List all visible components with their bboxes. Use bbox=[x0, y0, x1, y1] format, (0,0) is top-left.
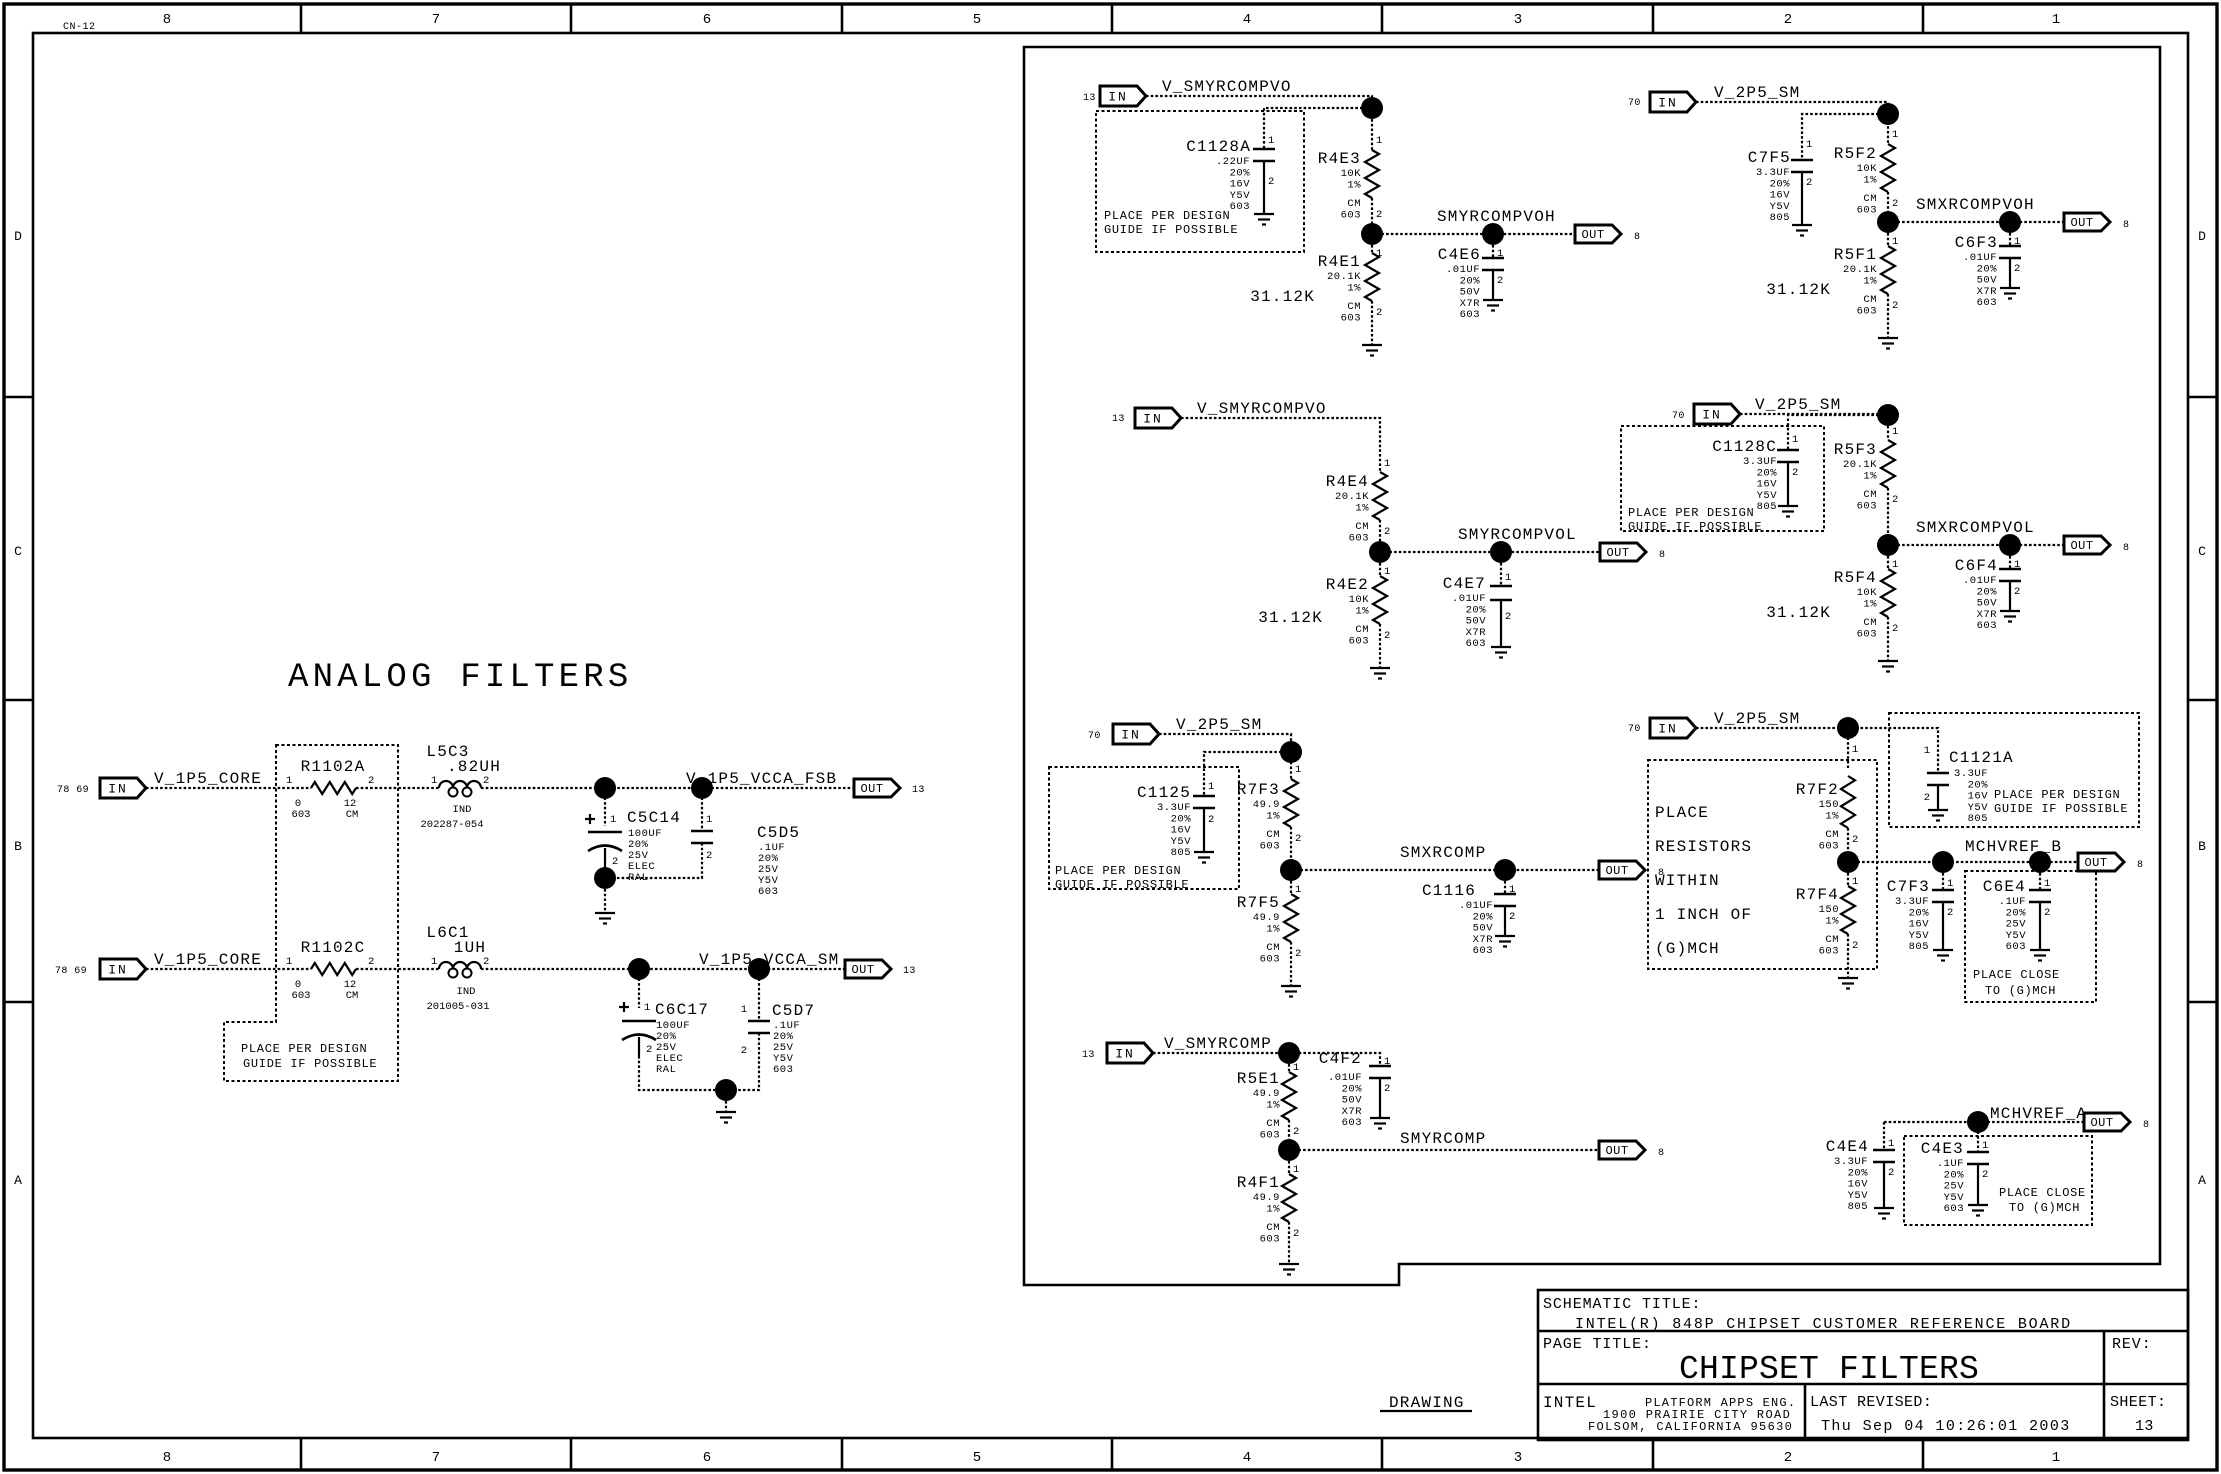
svg-text:A: A bbox=[2198, 1173, 2206, 1188]
svg-text:49.9: 49.9 bbox=[1253, 799, 1280, 811]
svg-text:20%: 20% bbox=[1171, 813, 1192, 825]
svg-text:.01UF: .01UF bbox=[1963, 252, 1997, 264]
svg-text:SCHEMATIC TITLE:: SCHEMATIC TITLE: bbox=[1543, 1296, 1701, 1313]
junction SMYRCOMPVOL (G2) bbox=[1369, 541, 1391, 563]
dashed placement box R1102 bbox=[224, 745, 398, 1081]
svg-text:C: C bbox=[2198, 544, 2206, 559]
inductor L5C3 bbox=[439, 781, 481, 788]
svg-text:IN: IN bbox=[1115, 1047, 1135, 1062]
svg-text:R4E4: R4E4 bbox=[1326, 473, 1369, 491]
svg-text:20%: 20% bbox=[1770, 178, 1791, 190]
svg-text:CHIPSET FILTERS: CHIPSET FILTERS bbox=[1679, 1351, 1979, 1388]
ground below R4E1 bbox=[1362, 344, 1382, 346]
svg-text:D: D bbox=[14, 229, 22, 244]
svg-text:CM: CM bbox=[346, 809, 359, 821]
svg-text:1: 1 bbox=[1888, 1138, 1894, 1150]
svg-text:3.3UF: 3.3UF bbox=[1157, 802, 1191, 814]
ground below R4E2 bbox=[1370, 667, 1390, 669]
svg-text:.01UF: .01UF bbox=[1446, 264, 1480, 276]
svg-text:8: 8 bbox=[1659, 550, 1665, 561]
placement box PLACE RESISTORS bbox=[1648, 760, 1877, 969]
svg-text:2: 2 bbox=[1806, 177, 1812, 189]
dashed placement box C1128C bbox=[1621, 426, 1824, 531]
dashed placement box C1128A bbox=[1096, 111, 1304, 252]
svg-text:C4E3: C4E3 bbox=[1921, 1140, 1964, 1158]
wire junction to C1128A bbox=[1264, 108, 1372, 149]
svg-text:150: 150 bbox=[1819, 904, 1839, 916]
svg-text:C5D5: C5D5 bbox=[757, 824, 800, 842]
resistor R4F1 bbox=[1288, 1161, 1290, 1174]
svg-text:603: 603 bbox=[1857, 305, 1877, 317]
svg-text:25V: 25V bbox=[1944, 1181, 1965, 1193]
svg-text:C4F2: C4F2 bbox=[1319, 1050, 1362, 1068]
svg-text:20.1K: 20.1K bbox=[1327, 271, 1361, 283]
resistor R4E2 bbox=[1379, 563, 1381, 576]
junction V_SMYRCOMPVO (G1) bbox=[1361, 97, 1383, 119]
OUT port SMYRCOMPVOH bbox=[1575, 225, 1621, 243]
svg-text:202287-054: 202287-054 bbox=[420, 819, 483, 831]
svg-text:C1121A: C1121A bbox=[1949, 749, 2014, 767]
svg-text:V_SMYRCOMPVO: V_SMYRCOMPVO bbox=[1197, 400, 1327, 418]
svg-text:C4E4: C4E4 bbox=[1826, 1138, 1869, 1156]
svg-text:.01UF: .01UF bbox=[1452, 593, 1486, 605]
svg-text:3.3UF: 3.3UF bbox=[1834, 1156, 1868, 1168]
svg-text:CM: CM bbox=[1863, 489, 1877, 501]
svg-text:1%: 1% bbox=[1266, 1099, 1280, 1111]
junction V_SMYRCOMP (G4) bbox=[1278, 1042, 1300, 1064]
junction SMYRCOMPVOH (G1) bbox=[1361, 223, 1383, 245]
junction below C6C17/C5D7 bbox=[715, 1079, 737, 1101]
svg-text:20%: 20% bbox=[1977, 263, 1998, 275]
svg-text:2: 2 bbox=[1293, 1228, 1299, 1240]
capacitor C6F4 bbox=[2009, 556, 2011, 569]
svg-text:4: 4 bbox=[1243, 12, 1251, 28]
svg-text:C5C14: C5C14 bbox=[627, 809, 681, 827]
svg-text:MCHVREF_B: MCHVREF_B bbox=[1965, 838, 2062, 856]
svg-text:X7R: X7R bbox=[1977, 609, 1998, 621]
svg-text:13: 13 bbox=[1083, 93, 1096, 104]
svg-text:IN: IN bbox=[1658, 96, 1678, 111]
svg-text:.1UF: .1UF bbox=[1999, 896, 2026, 908]
svg-text:8: 8 bbox=[163, 1450, 171, 1466]
svg-text:Y5V: Y5V bbox=[2006, 930, 2027, 942]
svg-text:V_2P5_SM: V_2P5_SM bbox=[1714, 84, 1800, 102]
svg-text:R5F1: R5F1 bbox=[1834, 246, 1877, 264]
svg-text:PLACE PER DESIGN: PLACE PER DESIGN bbox=[1104, 209, 1230, 223]
svg-text:V_SMYRCOMP: V_SMYRCOMP bbox=[1164, 1035, 1272, 1053]
OUT port SMYRCOMPVOL bbox=[1600, 543, 1646, 561]
svg-text:R5F3: R5F3 bbox=[1834, 441, 1877, 459]
ground below R5F4 bbox=[1878, 660, 1898, 662]
svg-text:V_SMYRCOMPVO: V_SMYRCOMPVO bbox=[1162, 78, 1292, 96]
svg-text:2: 2 bbox=[1947, 907, 1953, 919]
svg-text:SMXRCOMPVOL: SMXRCOMPVOL bbox=[1916, 519, 2035, 537]
svg-text:1: 1 bbox=[1295, 884, 1301, 896]
svg-text:IND: IND bbox=[453, 804, 472, 816]
svg-text:IN: IN bbox=[108, 782, 128, 797]
svg-text:2: 2 bbox=[1295, 833, 1301, 845]
svg-text:31.12K: 31.12K bbox=[1766, 281, 1831, 299]
wire IN to junction (G5) bbox=[1696, 102, 1888, 144]
svg-text:1%: 1% bbox=[1863, 174, 1877, 186]
svg-text:2: 2 bbox=[1982, 1169, 1988, 1181]
junction at C7F3 tap bbox=[1932, 851, 1954, 873]
svg-text:OUT: OUT bbox=[2084, 856, 2107, 870]
svg-text:603: 603 bbox=[1342, 1117, 1362, 1129]
svg-text:2: 2 bbox=[368, 956, 374, 968]
svg-text:2: 2 bbox=[1509, 911, 1515, 923]
wire IN to R5F3 (G6) bbox=[1740, 414, 1888, 440]
svg-text:FOLSOM, CALIFORNIA 95630: FOLSOM, CALIFORNIA 95630 bbox=[1588, 1420, 1793, 1434]
svg-text:OUT: OUT bbox=[1605, 1144, 1628, 1158]
capacitor C6F3 bbox=[2009, 233, 2011, 246]
svg-text:IN: IN bbox=[108, 963, 128, 978]
svg-text:C1116: C1116 bbox=[1422, 882, 1476, 900]
svg-text:1: 1 bbox=[1852, 876, 1858, 888]
svg-text:1%: 1% bbox=[1355, 605, 1369, 617]
svg-text:603: 603 bbox=[1341, 312, 1361, 324]
svg-text:OUT: OUT bbox=[2070, 539, 2093, 553]
svg-text:.22UF: .22UF bbox=[1216, 156, 1250, 168]
ground below C6F3 bbox=[2000, 287, 2020, 289]
ground below R5F1 bbox=[1878, 337, 1898, 339]
wire R1102A to L5C3 bbox=[356, 787, 439, 789]
svg-text:603: 603 bbox=[1341, 209, 1361, 221]
ground below C6E4 bbox=[2030, 949, 2050, 951]
title block outline bbox=[1538, 1290, 2188, 1440]
svg-text:7: 7 bbox=[432, 12, 440, 28]
svg-text:C1128C: C1128C bbox=[1712, 438, 1777, 456]
wire C5C14 to ground junction bbox=[604, 867, 606, 878]
svg-text:603: 603 bbox=[1260, 840, 1280, 852]
resistor R5E1 bbox=[1288, 1064, 1290, 1072]
wire R5F4 to ground bbox=[1887, 617, 1889, 661]
filter block outline bbox=[1024, 47, 2160, 1285]
svg-text:REV:: REV: bbox=[2112, 1336, 2152, 1353]
wire C5D5 to junction bbox=[616, 843, 702, 878]
svg-text:1: 1 bbox=[1982, 1140, 1988, 1152]
ground below C7F3 bbox=[1933, 949, 1953, 951]
ground below C1128C bbox=[1778, 505, 1798, 507]
junction at C4E6 tap bbox=[1482, 223, 1504, 245]
svg-text:6: 6 bbox=[703, 12, 711, 28]
svg-text:603: 603 bbox=[1819, 945, 1839, 957]
junction SMXRCOMPVOL (G6) bbox=[1877, 534, 1899, 556]
svg-text:PLACE PER DESIGN: PLACE PER DESIGN bbox=[1628, 506, 1754, 520]
svg-text:CM: CM bbox=[1355, 624, 1369, 636]
svg-text:V_2P5_SM: V_2P5_SM bbox=[1714, 710, 1800, 728]
svg-text:2: 2 bbox=[1293, 1126, 1299, 1138]
wire junction to OUT (G1) bbox=[1372, 233, 1575, 235]
svg-text:20%: 20% bbox=[1909, 907, 1930, 919]
svg-text:2: 2 bbox=[1792, 467, 1798, 479]
svg-text:2: 2 bbox=[1376, 307, 1382, 319]
resistor R7F5 bbox=[1290, 881, 1292, 894]
svg-text:1: 1 bbox=[1293, 1062, 1299, 1074]
junction at C1116 tap bbox=[1494, 859, 1516, 881]
wire junction to C5C14 bbox=[604, 788, 606, 826]
svg-text:X7R: X7R bbox=[1466, 627, 1487, 639]
svg-text:20%: 20% bbox=[1473, 911, 1494, 923]
svg-text:16V: 16V bbox=[1171, 825, 1192, 837]
IN port V_1P5_CORE (row 2) bbox=[100, 959, 146, 979]
svg-text:603: 603 bbox=[1260, 1129, 1280, 1141]
svg-text:2: 2 bbox=[1497, 275, 1503, 287]
svg-text:1: 1 bbox=[706, 814, 712, 826]
svg-text:.01UF: .01UF bbox=[1328, 1072, 1362, 1084]
svg-text:603: 603 bbox=[1349, 635, 1369, 647]
dashed placement box C1121A bbox=[1889, 713, 2139, 827]
svg-text:2: 2 bbox=[1924, 792, 1930, 804]
svg-text:Y5V: Y5V bbox=[1757, 490, 1778, 502]
svg-text:X7R: X7R bbox=[1342, 1106, 1363, 1118]
svg-text:603: 603 bbox=[1260, 1233, 1280, 1245]
IN port V_SMYRCOMP (G4) bbox=[1107, 1043, 1153, 1063]
svg-text:2: 2 bbox=[2014, 586, 2020, 598]
svg-text:CM: CM bbox=[1863, 617, 1877, 629]
svg-text:31.12K: 31.12K bbox=[1250, 288, 1315, 306]
OUT port SMXRCOMP bbox=[1599, 861, 1645, 879]
svg-text:1UH: 1UH bbox=[454, 939, 486, 957]
title block divider 2 bbox=[1538, 1383, 2188, 1386]
svg-text:X7R: X7R bbox=[1977, 286, 1998, 298]
svg-text:603: 603 bbox=[1349, 532, 1369, 544]
svg-text:49.9: 49.9 bbox=[1253, 912, 1280, 924]
junction at C5D7 tap bbox=[748, 958, 770, 980]
svg-text:2: 2 bbox=[1376, 209, 1382, 221]
svg-text:1: 1 bbox=[741, 1004, 747, 1016]
wire junction to OUT (G3) bbox=[1291, 869, 1599, 871]
bottom border zone dividers bbox=[300, 1438, 303, 1470]
wire IN to R4E4 bbox=[1181, 418, 1380, 472]
svg-text:1: 1 bbox=[1792, 434, 1798, 446]
svg-text:2: 2 bbox=[1784, 1450, 1792, 1466]
svg-text:PLACE CLOSE: PLACE CLOSE bbox=[1973, 968, 2060, 982]
svg-text:10K: 10K bbox=[1857, 163, 1878, 175]
svg-text:603: 603 bbox=[292, 809, 311, 821]
wire junction to OUT (G4) bbox=[1289, 1149, 1599, 1151]
svg-text:603: 603 bbox=[1819, 840, 1839, 852]
svg-text:603: 603 bbox=[1460, 309, 1480, 321]
OUT port V_1P5_VCCA_SM bbox=[845, 960, 891, 978]
svg-text:GUIDE IF POSSIBLE: GUIDE IF POSSIBLE bbox=[1628, 520, 1762, 534]
wire L5C3 to OUT V_1P5_VCCA_FSB bbox=[481, 787, 854, 789]
svg-text:RAL: RAL bbox=[656, 1064, 676, 1076]
wire junction to OUT (G5) bbox=[1888, 221, 2064, 223]
svg-text:C1125: C1125 bbox=[1137, 784, 1191, 802]
svg-text:20%: 20% bbox=[1342, 1083, 1363, 1095]
title block divider REV bbox=[2103, 1331, 2106, 1440]
svg-text:R5F2: R5F2 bbox=[1834, 145, 1877, 163]
OUT port MCHVREF_B bbox=[2078, 853, 2124, 871]
svg-text:1: 1 bbox=[1852, 744, 1858, 756]
IN port V_2P5_SM (G6) bbox=[1694, 404, 1740, 424]
junction at C6F3 tap bbox=[1999, 211, 2021, 233]
svg-text:8: 8 bbox=[1658, 1148, 1664, 1159]
svg-text:Y5V: Y5V bbox=[1770, 201, 1791, 213]
svg-text:1: 1 bbox=[286, 775, 292, 787]
wire MCHVREF_A bbox=[1884, 1121, 2084, 1123]
svg-text:LAST REVISED:: LAST REVISED: bbox=[1810, 1394, 1932, 1411]
svg-text:X7R: X7R bbox=[1473, 934, 1494, 946]
svg-text:20%: 20% bbox=[1944, 1169, 1965, 1181]
svg-text:SMYRCOMPVOH: SMYRCOMPVOH bbox=[1437, 208, 1556, 226]
svg-text:.82UH: .82UH bbox=[447, 758, 501, 776]
svg-text:5: 5 bbox=[973, 12, 981, 28]
wire IN to R1102A bbox=[146, 787, 311, 789]
svg-text:Thu Sep 04 10:26:01 2003: Thu Sep 04 10:26:01 2003 bbox=[1821, 1418, 2071, 1435]
wire C5D7 to bottom junction bbox=[737, 1033, 759, 1090]
svg-text:ANALOG FILTERS: ANALOG FILTERS bbox=[288, 659, 632, 697]
svg-text:2: 2 bbox=[1852, 834, 1858, 846]
svg-text:13: 13 bbox=[2135, 1418, 2154, 1435]
svg-text:C6E4: C6E4 bbox=[1983, 878, 2026, 896]
svg-text:GUIDE IF POSSIBLE: GUIDE IF POSSIBLE bbox=[1994, 802, 2128, 816]
svg-text:20%: 20% bbox=[1848, 1167, 1869, 1179]
svg-text:C5D7: C5D7 bbox=[772, 1002, 815, 1020]
svg-text:3.3UF: 3.3UF bbox=[1954, 768, 1988, 780]
junction MCHVREF_A bbox=[1967, 1111, 1989, 1133]
svg-text:7: 7 bbox=[432, 1450, 440, 1466]
svg-text:C6F3: C6F3 bbox=[1955, 234, 1998, 252]
svg-text:2: 2 bbox=[706, 850, 712, 862]
ground below C7F5 bbox=[1792, 224, 1812, 226]
svg-text:805: 805 bbox=[1171, 847, 1191, 859]
wire junction to OUT (G7) bbox=[1848, 861, 2078, 863]
wire IN to C4F2 corner (G4) bbox=[1153, 1053, 1380, 1066]
svg-text:1%: 1% bbox=[1347, 282, 1361, 294]
svg-text:1: 1 bbox=[644, 1002, 650, 1014]
svg-text:2: 2 bbox=[1208, 814, 1214, 826]
junction at C5C14 tap bbox=[594, 777, 616, 799]
svg-text:V_1P5_VCCA_FSB: V_1P5_VCCA_FSB bbox=[686, 770, 837, 788]
svg-text:50V: 50V bbox=[1473, 923, 1494, 935]
svg-text:3: 3 bbox=[1514, 1450, 1522, 1466]
svg-text:805: 805 bbox=[1757, 501, 1777, 513]
wire R7F5 to ground bbox=[1290, 942, 1292, 986]
svg-text:IN: IN bbox=[1702, 408, 1722, 423]
svg-text:50V: 50V bbox=[1342, 1095, 1363, 1107]
svg-text:20%: 20% bbox=[1466, 604, 1487, 616]
svg-text:1: 1 bbox=[1384, 566, 1390, 578]
wire IN to junction (G1) bbox=[1146, 96, 1372, 150]
svg-text:2: 2 bbox=[1852, 940, 1858, 952]
svg-text:603: 603 bbox=[773, 1064, 793, 1076]
svg-text:PLACE: PLACE bbox=[1655, 804, 1709, 822]
svg-text:2: 2 bbox=[1268, 176, 1274, 188]
junction SMXRCOMP (G3) bbox=[1280, 859, 1302, 881]
svg-text:805: 805 bbox=[1968, 813, 1988, 825]
svg-text:603: 603 bbox=[1857, 628, 1877, 640]
svg-text:C6C17: C6C17 bbox=[655, 1001, 709, 1019]
svg-text:2: 2 bbox=[1384, 526, 1390, 538]
svg-text:1: 1 bbox=[1268, 135, 1274, 147]
svg-text:1: 1 bbox=[1924, 745, 1930, 757]
svg-text:8: 8 bbox=[2123, 543, 2129, 554]
svg-text:2: 2 bbox=[1892, 300, 1898, 312]
junction MCHVREF_B (G7) bbox=[1837, 851, 1859, 873]
svg-text:IN: IN bbox=[1121, 728, 1141, 743]
svg-text:3: 3 bbox=[1514, 12, 1522, 28]
svg-text:2: 2 bbox=[483, 956, 489, 968]
wire L6C1 to OUT V_1P5_VCCA_SM bbox=[481, 968, 845, 970]
capacitor C6C17 bbox=[619, 1002, 629, 1012]
wire junction to C1128C bbox=[1788, 415, 1888, 450]
ground below C4E7 bbox=[1491, 646, 1511, 648]
svg-text:Y5V: Y5V bbox=[1848, 1190, 1869, 1202]
junction SMXRCOMPVOH (G5) bbox=[1877, 211, 1899, 233]
svg-text:3.3UF: 3.3UF bbox=[1743, 456, 1777, 468]
ground below C4E3 bbox=[1968, 1204, 1988, 1206]
junction at C6E4 tap bbox=[2029, 851, 2051, 873]
svg-text:SHEET:: SHEET: bbox=[2110, 1394, 2166, 1411]
svg-text:2: 2 bbox=[1384, 1083, 1390, 1095]
IN port V_2P5_SM (G7) bbox=[1650, 718, 1696, 738]
svg-text:16V: 16V bbox=[1848, 1179, 1869, 1191]
svg-text:V_2P5_SM: V_2P5_SM bbox=[1755, 396, 1841, 414]
svg-text:C4E7: C4E7 bbox=[1443, 575, 1486, 593]
svg-text:49.9: 49.9 bbox=[1253, 1192, 1280, 1204]
svg-text:IN: IN bbox=[1658, 722, 1678, 737]
top border zone dividers bbox=[300, 4, 303, 33]
svg-text:16V: 16V bbox=[1968, 791, 1989, 803]
svg-text:V_1P5_CORE: V_1P5_CORE bbox=[154, 770, 262, 788]
capacitor C5D7 bbox=[758, 969, 760, 1021]
svg-text:PLACE PER DESIGN: PLACE PER DESIGN bbox=[1994, 788, 2120, 802]
svg-text:2: 2 bbox=[1892, 623, 1898, 635]
wire R4F1 to ground bbox=[1288, 1222, 1290, 1264]
svg-text:1: 1 bbox=[1293, 1164, 1299, 1176]
ground below R7F4 bbox=[1838, 977, 1858, 979]
wire IN to junction (G3) bbox=[1159, 734, 1291, 779]
OUT port SMXRCOMPVOL bbox=[2064, 536, 2110, 554]
svg-text:16V: 16V bbox=[1909, 919, 1930, 931]
svg-text:8: 8 bbox=[2137, 860, 2143, 871]
svg-text:8: 8 bbox=[1634, 232, 1640, 243]
svg-text:.1UF: .1UF bbox=[1937, 1158, 1964, 1170]
svg-text:50V: 50V bbox=[1460, 287, 1481, 299]
svg-text:20%: 20% bbox=[1968, 779, 1989, 791]
svg-text:10K: 10K bbox=[1857, 587, 1878, 599]
svg-text:1: 1 bbox=[1806, 139, 1812, 151]
wire C6C17 to bottom junction bbox=[639, 1056, 715, 1090]
ground below R4F1 bbox=[1279, 1263, 1299, 1265]
svg-text:C7F3: C7F3 bbox=[1887, 878, 1930, 896]
wire junction to C1125 bbox=[1204, 752, 1291, 796]
junction at C5D5 tap bbox=[691, 777, 713, 799]
svg-text:10K: 10K bbox=[1349, 594, 1370, 606]
svg-text:CM: CM bbox=[1266, 829, 1280, 841]
svg-text:1%: 1% bbox=[1355, 502, 1369, 514]
OUT port V_1P5_VCCA_FSB bbox=[854, 779, 900, 797]
svg-text:C6F4: C6F4 bbox=[1955, 557, 1998, 575]
svg-text:8: 8 bbox=[2123, 220, 2129, 231]
svg-text:D: D bbox=[2198, 229, 2206, 244]
svg-text:R4E2: R4E2 bbox=[1326, 576, 1369, 594]
svg-text:R4E3: R4E3 bbox=[1318, 150, 1361, 168]
svg-text:V_1P5_CORE: V_1P5_CORE bbox=[154, 951, 262, 969]
svg-text:R7F3: R7F3 bbox=[1237, 781, 1280, 799]
svg-text:Y5V: Y5V bbox=[1968, 802, 1989, 814]
svg-text:3.3UF: 3.3UF bbox=[1756, 167, 1790, 179]
ground below C1128A bbox=[1254, 213, 1274, 215]
svg-text:R1102C: R1102C bbox=[301, 939, 366, 957]
svg-text:2: 2 bbox=[1888, 1167, 1894, 1179]
svg-text:OUT: OUT bbox=[1605, 864, 1628, 878]
svg-text:1%: 1% bbox=[1863, 598, 1877, 610]
svg-text:78 69: 78 69 bbox=[57, 785, 89, 796]
svg-text:WITHIN: WITHIN bbox=[1655, 872, 1720, 890]
